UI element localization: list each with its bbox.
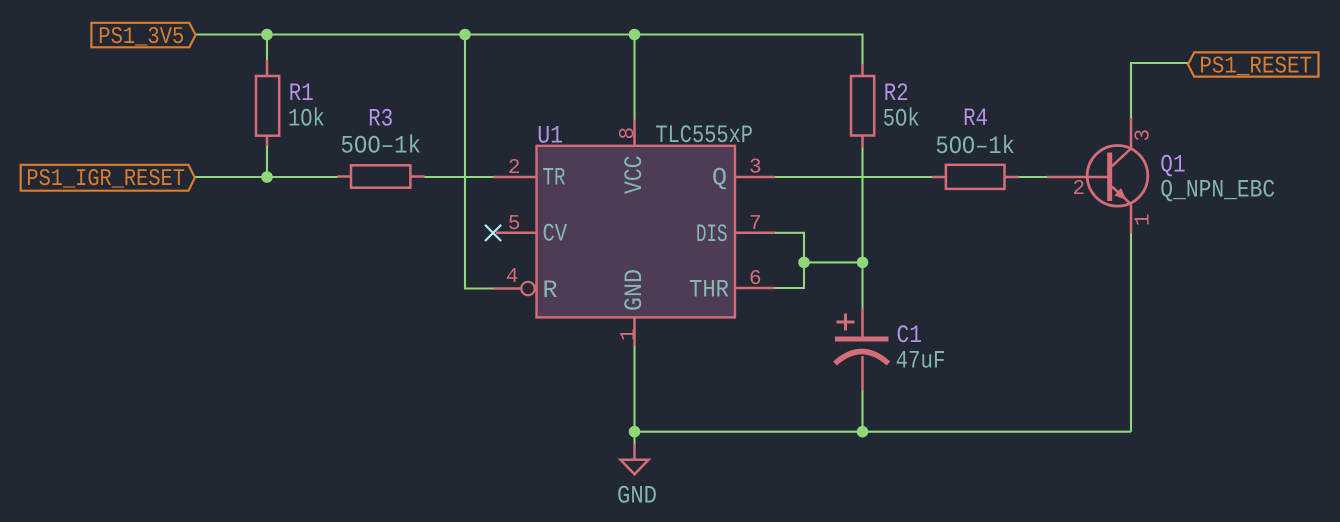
svg-text:R2: R2 [884,79,909,108]
svg-text:5: 5 [508,213,521,236]
ground symbol [621,445,649,475]
wire: DIS node to R2/C1 column [804,261,863,263]
svg-text:PS1_IGR_RESET: PS1_IGR_RESET [26,166,185,193]
wire: R1 bottom to IGR node [266,146,268,177]
junction at 3V5/VCC [629,29,641,41]
wire: THR to node [775,262,804,288]
wire: R1 top stub [266,35,268,61]
wire: R2 bottom to C1 top [861,148,863,324]
svg-text:TR: TR [543,164,566,193]
svg-text:3: 3 [1133,129,1156,142]
junction at GND symbol [629,426,641,438]
svg-text:4: 4 [506,266,519,289]
wire: GND bottom rail [635,431,1132,433]
junction at R1/IGR_RESET [261,171,273,183]
svg-text:U1: U1 [537,121,563,150]
U1 pin 4 R (inverted) [494,266,558,305]
junction at 3V5/R1 [261,29,273,41]
svg-text:R: R [543,276,558,305]
wire: R3 to pin2 TR [425,176,494,178]
resistor R2 [851,64,874,148]
resistor R3 [338,165,425,187]
svg-text:2: 2 [508,157,521,180]
junction at C1/GND rail [857,426,869,438]
svg-text:VCC: VCC [620,155,649,194]
svg-text:1: 1 [1133,213,1156,226]
svg-text:DIS: DIS [696,220,728,249]
U1 pin 3 Q [712,157,775,193]
svg-text:5Ok: 5Ok [883,105,920,134]
wire: U1 pin1 to GND rail [633,346,635,432]
transistor Q1 [1047,118,1148,234]
no-connect X on pin 5 [485,225,501,241]
svg-text:2: 2 [1072,178,1085,201]
wire: R4 to Q1 base [1019,176,1048,178]
global label PS1_3V5 [91,23,195,51]
svg-text:5OO–1k: 5OO–1k [936,132,1015,161]
junction at R2/C1 node [857,257,869,269]
U1 pin 1 GND [618,269,649,346]
wire: VCC drop to pin8 [633,35,635,120]
svg-text:GND: GND [617,481,657,510]
wire: C1 bottom to GND rail [861,391,863,432]
svg-text:1Ok: 1Ok [288,105,325,134]
junction at 3V5/pin4 branch [459,29,471,41]
svg-text:TLC555xP: TLC555xP [655,121,753,150]
U1 pin 6 THR [689,268,775,304]
svg-text:THR: THR [689,275,729,304]
U1 pin 5 CV [496,213,567,249]
wire: 3V5 top rail to R2 [195,35,863,65]
U1 pin 8 VCC [617,120,649,195]
svg-text:6: 6 [749,268,762,291]
svg-text:Q: Q [712,164,727,193]
wire: PS1_RESET to Q1 collector [1131,63,1188,118]
wire: Q1 emitter to GND rail [1130,234,1132,432]
capacitor C1 [835,309,889,391]
global label PS1_IGR_RESET [21,165,195,193]
junction at DIS/THR node [798,257,810,269]
global label PS1_RESET [1188,52,1319,80]
svg-text:PS1_3V5: PS1_3V5 [98,24,184,51]
svg-text:R1: R1 [289,79,314,108]
svg-text:R3: R3 [368,105,393,134]
wire: IGR_RESET label to R3 [195,176,338,178]
resistor R4 [932,165,1019,189]
wire: Q output to R4 [775,176,932,178]
svg-text:CV: CV [543,220,568,249]
U1 pin 2 TR [494,157,566,193]
svg-text:7: 7 [749,213,762,236]
svg-text:1: 1 [618,328,641,341]
svg-text:8: 8 [617,127,640,140]
svg-text:Q_NPN_EBC: Q_NPN_EBC [1160,176,1275,205]
wire: 3V5 branch down to pin4 R [465,35,494,289]
svg-text:GND: GND [620,269,649,311]
IC U1 body [537,146,736,318]
svg-text:47uF: 47uF [896,346,946,375]
wire: DIS to node [775,233,804,263]
svg-text:3: 3 [749,157,762,180]
resistor R1 [256,60,279,146]
svg-text:5OO–1k: 5OO–1k [341,132,422,161]
svg-text:PS1_RESET: PS1_RESET [1199,53,1312,80]
wire: GND symbol stub [633,432,635,445]
U1 pin 7 DIS [696,213,775,249]
svg-text:R4: R4 [963,104,988,133]
